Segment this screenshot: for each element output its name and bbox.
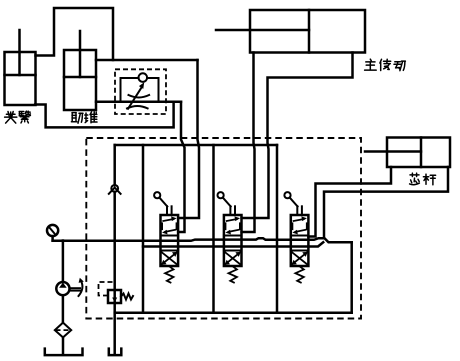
valve V1 (lever directional valve) bbox=[154, 192, 178, 282]
wire drop A (to valve V1 right upper stub) bbox=[178, 60, 199, 218]
wire drop B (to valve V1 right lower stub) bbox=[178, 102, 184, 232]
label 助推 bbox=[71, 112, 97, 123]
manifold dashed enclosure bbox=[86, 138, 361, 319]
wire 芯杆 lower line bbox=[324, 167, 448, 238]
pressure gauge bbox=[47, 225, 58, 241]
wire 主传动 right port drop to valve V2 right upper stub bbox=[242, 53, 353, 219]
manifold vertical line x351.7 (right return riser) bbox=[350, 242, 353, 313]
relief valve bbox=[99, 282, 134, 353]
wire 芯杆 upper line to valve V3 right upper stub bbox=[308, 167, 391, 237]
check valve (ball on seat) bbox=[109, 145, 121, 290]
wire B: 夹紧 bottom port under 助推 bbox=[35, 102, 173, 128]
cylinder 助推 (booster cylinder) bbox=[64, 31, 96, 110]
wire 夹紧 top port to inverted-U over to junction bbox=[36, 8, 114, 60]
manifold vertical line x277 bbox=[276, 145, 279, 313]
valve V3 (lever directional valve) bbox=[284, 192, 308, 282]
tank left bbox=[45, 349, 83, 356]
bottom return line bbox=[115, 312, 352, 315]
wire flow line 助推 bottom through throttle to drop B bbox=[96, 101, 181, 104]
flow control valve (dashed box, throttle with bypass ball) bbox=[115, 69, 166, 114]
internal return line y145 bbox=[115, 144, 277, 147]
filter bbox=[55, 295, 71, 353]
lower row right end jog up bbox=[308, 242, 323, 246]
label 主传动 bbox=[365, 59, 406, 71]
tank right bbox=[109, 349, 122, 356]
label 夹紧 bbox=[5, 111, 31, 123]
cylinder 夹紧 (clamp cylinder) bbox=[5, 30, 36, 105]
wire top chambers: 助推 top port to drop A bbox=[96, 59, 198, 62]
cylinder 主传动 (main drive cylinder) bbox=[216, 10, 365, 53]
wire 主传动 left port drop to valve V2 right lower stub bbox=[242, 53, 255, 233]
cylinder 芯杆 (core rod cylinder) bbox=[365, 138, 450, 168]
valve V2 (lever directional valve) bbox=[218, 192, 242, 282]
supply line from gauge/pump across valves bbox=[53, 238, 352, 242]
manifold vertical line x213.5 bbox=[212, 145, 215, 313]
label 芯杆 bbox=[410, 173, 436, 185]
lower port row line bbox=[143, 245, 308, 248]
manifold vertical line x143 bbox=[142, 145, 145, 313]
pump (variable, with control arrow) bbox=[56, 241, 84, 297]
